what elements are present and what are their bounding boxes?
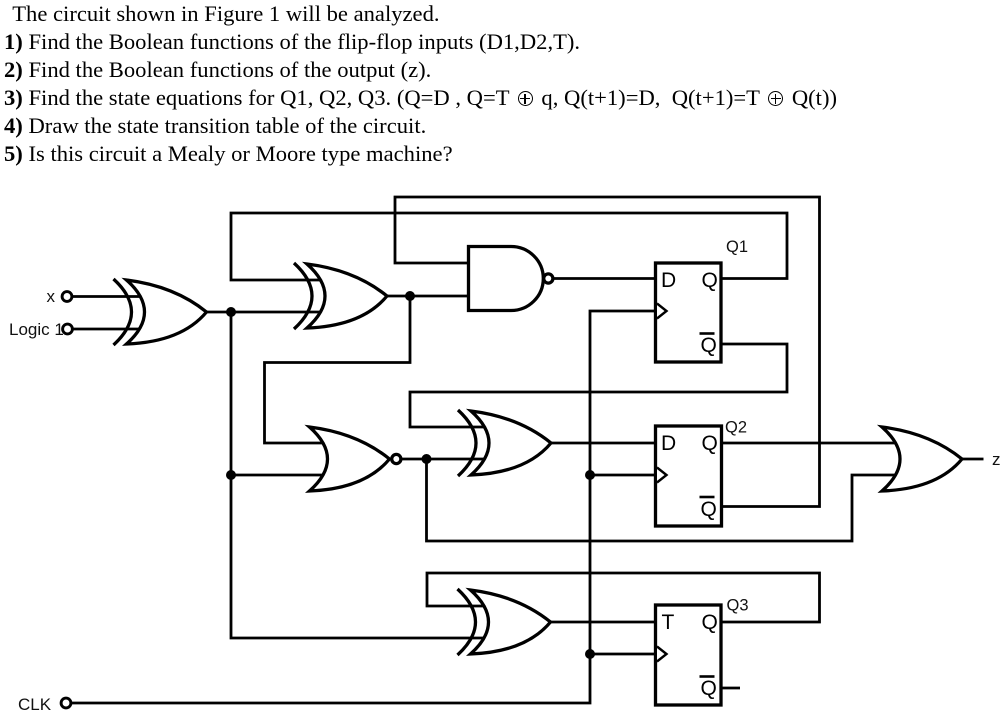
svg-text:Q: Q	[702, 269, 718, 292]
xor gate G5	[458, 410, 551, 476]
wire XOR2 output to NAND lower input	[387, 295, 471, 298]
wire node A branch to NOR lower input	[231, 474, 350, 477]
wire XOR1 output to XOR2 lower input	[207, 311, 337, 314]
nand gate G3	[469, 247, 553, 311]
xor gate G2	[294, 263, 387, 329]
clock triangle U3	[657, 647, 667, 662]
svg-text:CLK: CLK	[18, 695, 52, 714]
wire Q1 Q output feedback to XOR2 upper input	[231, 213, 787, 280]
svg-text:Q: Q	[702, 611, 718, 634]
svg-text:D: D	[661, 432, 676, 455]
wire XOR4 output to T input of U3	[551, 621, 659, 624]
wire Q3 Qbar stub	[722, 687, 741, 690]
svg-text:Q3: Q3	[727, 597, 749, 615]
xor gate G1 input stage	[114, 279, 207, 345]
wire Q1 Qbar feedback to XOR3 upper input	[410, 344, 787, 427]
flip-flop U3 T Q3	[656, 605, 722, 705]
wire Q2 Q output to OR upper input	[721, 442, 922, 445]
node A junction XOR1 output	[226, 307, 236, 317]
node C junction NOR output	[422, 454, 432, 464]
svg-text:Q: Q	[701, 498, 717, 521]
svg-text:z: z	[992, 450, 1001, 469]
wire Logic 1 input	[73, 328, 156, 331]
wire trunk from node A down to XOR4 lower input	[231, 312, 497, 638]
svg-text:Q: Q	[701, 334, 717, 357]
terminal CLK	[61, 698, 71, 708]
node junction clock at U3	[585, 649, 595, 659]
overbar Qbar U1	[700, 332, 715, 335]
terminal Logic 1	[63, 324, 73, 334]
node junction clock at U2	[585, 470, 595, 480]
or gate G7 output stage	[882, 427, 962, 491]
node B junction XOR2 output	[405, 291, 415, 301]
wire NOR output branch to OR lower input	[427, 459, 923, 541]
svg-text:D: D	[661, 269, 676, 292]
wire clock branch to U2	[590, 474, 658, 477]
wire XOR3 output to D input of U2	[551, 442, 658, 445]
flip-flop U1 D Q1	[656, 263, 722, 362]
clock triangle U2	[657, 468, 667, 483]
wire x input	[72, 295, 155, 298]
wire NAND output to D input of U1	[553, 277, 658, 280]
wire XOR2 output branch to NOR upper input	[265, 296, 411, 443]
xor gate G6	[458, 589, 551, 655]
svg-text:Q: Q	[701, 677, 717, 700]
overbar Qbar U3	[700, 675, 715, 678]
svg-text:Q: Q	[702, 432, 718, 455]
svg-text:Q1: Q1	[726, 238, 748, 256]
problem statement text	[4, 0, 837, 168]
svg-text:Logic 1: Logic 1	[9, 320, 64, 339]
clock triangle U1	[657, 304, 667, 319]
wire z output	[962, 458, 984, 461]
node junction trunk to NOR	[226, 470, 236, 480]
wire clock branch to U3	[590, 653, 658, 656]
flip-flop U2 D Q2	[656, 426, 722, 526]
wire Q2 Qbar feedback to NAND upper input	[395, 197, 820, 507]
wire CLK to clock of U1	[71, 311, 658, 703]
svg-text:x: x	[47, 287, 56, 306]
svg-text:Q2: Q2	[725, 419, 747, 437]
wire NOR output to XOR3 lower input	[402, 458, 499, 461]
nor gate G4	[310, 427, 401, 491]
terminal x	[62, 292, 72, 302]
overbar Qbar U2	[700, 496, 715, 499]
svg-text:T: T	[662, 611, 675, 634]
wire Q3 Q output feedback to XOR4 upper input	[427, 573, 820, 622]
